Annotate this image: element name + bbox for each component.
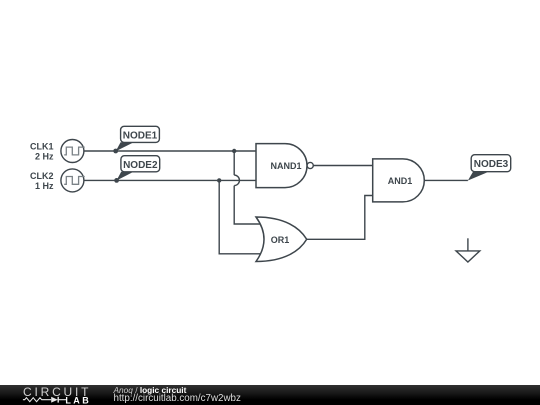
node flag NODE1	[113, 126, 159, 153]
OR1 body	[256, 217, 307, 262]
junction on NODE1 wire (branch to OR1)	[232, 149, 236, 153]
CLK2 square-wave symbol	[64, 177, 85, 185]
svg-text:NAND1: NAND1	[270, 161, 301, 171]
clock source CLK1	[30, 140, 85, 163]
ground	[456, 238, 480, 262]
CLK1 square-wave symbol	[64, 147, 85, 155]
AND gate AND1	[373, 159, 425, 202]
wire NODE1 branch down to OR1 input pin 1	[234, 151, 261, 224]
junction on NODE2 wire (branch to OR1)	[217, 178, 221, 182]
wire hop arc over NODE2 wire	[234, 175, 239, 186]
NODE1 flag pointer	[116, 142, 134, 151]
wire OR1 output to AND1 input pin 2	[307, 196, 373, 240]
NAND1 body	[256, 144, 307, 188]
NAND gate NAND1	[256, 144, 313, 188]
wire net NODE2: CLK2 output to NAND1 input pin 2	[84, 179, 256, 181]
CircuitLab logo	[0, 385, 110, 405]
svg-text:AND1: AND1	[388, 176, 413, 186]
NODE3 flag box	[471, 155, 511, 172]
OR gate OR1	[256, 217, 307, 262]
logo lead wire	[58, 399, 66, 401]
AND1 body	[373, 159, 425, 202]
svg-text:NODE3: NODE3	[474, 159, 509, 170]
logo diode triangle	[51, 397, 58, 403]
CLK1 body circle	[61, 140, 84, 163]
NODE1 attachment dot	[113, 149, 118, 154]
clock source CLK2	[30, 169, 85, 192]
NODE2 flag box	[121, 156, 160, 172]
logo diode bar	[57, 397, 59, 403]
CLK2 body circle	[61, 169, 84, 192]
NODE2 attachment dot	[114, 178, 119, 183]
caption text	[114, 385, 414, 404]
ground triangle	[456, 251, 480, 262]
node flag NODE3	[468, 155, 511, 181]
NODE2 flag pointer	[117, 172, 134, 181]
ground stub wire	[467, 238, 469, 251]
svg-text:1 Hz: 1 Hz	[35, 181, 54, 191]
svg-text:CLK1: CLK1	[30, 142, 54, 152]
wire NODE2 branch down to OR1 input pin 2	[219, 180, 261, 253]
NODE1 flag box	[121, 126, 160, 142]
footer bar	[0, 385, 540, 405]
logo resistor zigzag	[23, 398, 51, 402]
svg-text:NODE1: NODE1	[123, 131, 158, 142]
node flag NODE2	[114, 156, 160, 183]
wire NAND1 output to AND1 input pin 1	[313, 165, 372, 167]
NAND1 inversion bubble	[307, 162, 313, 168]
svg-text:LAB: LAB	[65, 396, 91, 405]
wire net NODE1: CLK1 output to NAND1 input pin 1	[84, 150, 256, 152]
svg-text:NODE2: NODE2	[123, 160, 158, 171]
wire net NODE3: AND1 output to NODE3 flag	[424, 179, 468, 181]
NODE3 flag pointer	[468, 172, 488, 181]
svg-text:CLK2: CLK2	[30, 171, 54, 181]
svg-text:2 Hz: 2 Hz	[35, 152, 54, 162]
svg-text:OR1: OR1	[271, 235, 290, 245]
